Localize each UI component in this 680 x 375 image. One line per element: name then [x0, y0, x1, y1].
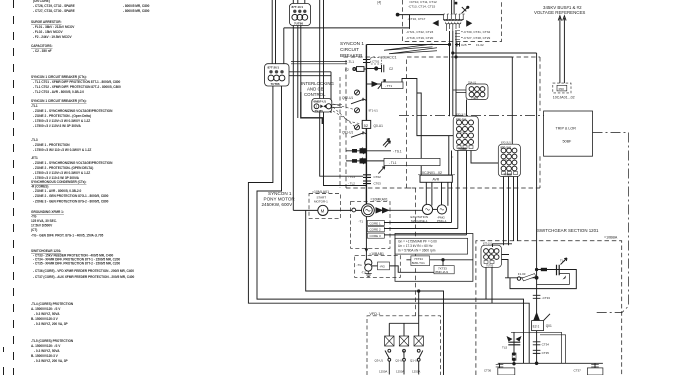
svg-text:[4]: [4]	[378, 1, 382, 5]
svg-text:CORE 1: CORE 1	[370, 221, 382, 225]
svg-text:- ZONE 2 - GEN PROTECTION 87G-: - ZONE 2 - GEN PROTECTION 87G-1 - 8000/5…	[33, 194, 109, 198]
svg-text:87T-1U1: 87T-1U1	[292, 5, 304, 9]
TL4 voltage transformer branch	[510, 270, 576, 289]
svg-text:(CT): (CT)	[31, 228, 37, 232]
svg-text:- ZONE 1 - PROTECTION: - ZONE 1 - PROTECTION	[33, 143, 70, 147]
svg-text:87G-1U1: 87G-1U1	[456, 117, 467, 121]
capacitor C2	[366, 65, 383, 72]
svg-text:CORE 3: CORE 3	[370, 234, 382, 238]
start motor M circle	[318, 205, 328, 215]
svg-text:- TL2: - TL2	[348, 181, 355, 185]
CT34	[533, 342, 541, 345]
surge arrester -TS.1	[346, 150, 391, 152]
svg-text:-TL5 (CORES) PROTECTION: -TL5 (CORES) PROTECTION	[31, 339, 74, 343]
transformer HV leads up	[452, 0, 455, 15]
svg-text:-T11: -T11	[361, 271, 367, 275]
circuit breaker Q0-U1 (52)	[362, 120, 371, 128]
wire: horizontal links transformer to bus and switchgear	[366, 44, 449, 46]
svg-text:- TS.1: - TS.1	[393, 149, 402, 153]
svg-text:SURGE ARRESTOR:: SURGE ARRESTOR:	[31, 20, 62, 24]
svg-text:SYNCHRONOUS CONDENSER (CTs):: SYNCHRONOUS CONDENSER (CTs):	[31, 180, 86, 184]
surge arrester -TL1 lower	[346, 160, 384, 162]
svg-text:87G-1U1: 87G-1U1	[456, 114, 466, 117]
svg-text:- ZONE 2 - PROTECTION- (OPEN: - ZONE 2 - PROTECTION- (OPEN DELTA)	[33, 166, 93, 170]
svg-text:=10MKA01: =10MKA01	[370, 197, 387, 201]
wire W1: cluster B to switchgear lower run	[248, 86, 529, 363]
svg-text:- 0.3 WXYZ, 200 VA, 3P: - 0.3 WXYZ, 200 VA, 3P	[34, 359, 69, 363]
junction dot	[455, 2, 458, 5]
svg-text:- 0.3 WXYZ, 200 VA, 3P: - 0.3 WXYZ, 200 VA, 3P	[34, 322, 69, 326]
svg-text:- 17500:√3 // 110V:√3 W/ 0.3WX: - 17500:√3 // 110V:√3 W/ 0.3WXY & 1.2Z	[33, 171, 90, 175]
svg-text:- TL2 CT03 - AVR - 8000/5, 0.3: - TL2 CT03 - AVR - 8000/5, 0.3B-2.0	[33, 90, 84, 94]
wire: bus duct run to breaker (flexible link curves)	[384, 44, 433, 50]
PMG circle	[437, 205, 446, 214]
svg-text:- 17500:√3 // 110V:3 W/ 3P 300: - 17500:√3 // 110V:3 W/ 3P 300VA	[33, 124, 82, 128]
svg-text:8MD-TU1: 8MD-TU1	[412, 261, 425, 265]
breaker E2-1 Q01	[532, 321, 544, 331]
svg-text:A- 15000V/120: √3 V: A- 15000V/120: √3 V	[31, 307, 61, 311]
label: INTERLOCKING AND CB CONTROL	[301, 81, 335, 97]
wires: cluster E bottom down toward switchgear	[504, 177, 518, 246]
svg-text:SYNCON 1: SYNCON 1	[268, 191, 292, 196]
dashed links interlock to switches	[333, 104, 355, 127]
svg-text:CIRCUIT: CIRCUIT	[340, 47, 359, 52]
svg-text:Q01: Q01	[546, 324, 552, 328]
svg-text:- TT1: - TT1	[385, 84, 392, 88]
interlock contact circle	[355, 108, 360, 113]
label: SYNCON 1 PONY MOTOR	[262, 191, 296, 207]
svg-text:- F2 - 24kV : 19.5kV MCOV: - F2 - 24kV : 19.5kV MCOV	[33, 35, 72, 39]
svg-text:=10BACC1: =10BACC1	[378, 55, 397, 59]
svg-text:F1.02: F1.02	[476, 43, 484, 47]
dashed box: main transformer enclosure	[403, 0, 502, 42]
svg-text:7SJ85: 7SJ85	[315, 109, 324, 113]
svg-text:7UT86: 7UT86	[271, 82, 280, 86]
svg-text:-CT13, CT14, CT15: -CT13, CT14, CT15	[408, 4, 435, 8]
disconnect Q92-U1	[355, 90, 360, 95]
label: SYNCON 1 CIRCUIT BREAKER	[340, 41, 364, 58]
wire: start motor feed	[293, 209, 318, 211]
CT35	[533, 350, 541, 353]
wire: feeders into relay cluster 87T-2 from top	[272, 0, 275, 64]
svg-text:CT35: CT35	[542, 351, 550, 355]
svg-text:CT02: CT02	[374, 175, 382, 179]
svg-text:-TG: -TG	[357, 263, 363, 267]
svg-text:F50: F50	[559, 87, 565, 91]
svg-text:CT36: CT36	[484, 368, 492, 372]
svg-text:B- 15000V/120:3 V: B- 15000V/120:3 V	[31, 317, 59, 321]
CT27..CT32 symbols on LV lead	[455, 31, 460, 40]
wire: aux feeder bypass	[419, 291, 444, 375]
svg-text:Q3-U1: Q3-U1	[375, 359, 384, 363]
svg-text:CT03: CT03	[374, 181, 382, 185]
earthing switch (scissor)	[462, 6, 469, 13]
wire: interlocking control loop (heavy)	[301, 92, 323, 124]
svg-text:MOTOR-1: MOTOR-1	[314, 199, 328, 203]
GSU transformer winding symbol	[443, 14, 465, 31]
excitation machine circle	[422, 204, 432, 214]
internal distribution	[389, 323, 418, 336]
svg-text:-CT21, CT22, CT23: -CT21, CT22, CT23	[406, 30, 433, 34]
CT01 on bus with TL1 label	[363, 60, 370, 63]
wire motor to machine with coupling	[328, 209, 362, 211]
main syncon bus	[365, 45, 367, 205]
fuse-contactor Q1-U1	[410, 336, 423, 375]
svg-text:C2: C2	[389, 67, 393, 71]
svg-text:AND CB: AND CB	[307, 87, 324, 92]
fuse-contactor Q2-U1	[395, 336, 408, 375]
svg-text:-R (CORES): -R (CORES)	[31, 185, 48, 189]
svg-text:-TG: -TG	[31, 215, 37, 219]
svg-text:M: M	[321, 208, 325, 213]
neutral grounding resistor RG	[378, 262, 390, 270]
svg-text:Un = 17.3 kV fN = 60: Un = 17.3 kV fN = 60 Hz	[398, 244, 433, 248]
svg-text:PONY MOTOR: PONY MOTOR	[264, 197, 296, 202]
svg-text:17.5kV D/500V: 17.5kV D/500V	[31, 224, 53, 228]
TL5 voltage transformer branch	[513, 332, 515, 363]
machine neutral bus down	[365, 217, 367, 262]
svg-text:125 KVA, 30 SEC.: 125 KVA, 30 SEC.	[31, 219, 57, 223]
wire: transformer CT lead	[284, 27, 410, 29]
svg-text:- TL1 CT01 - XFMR DIFF PROTECT: - TL1 CT01 - XFMR DIFF PROTECTION 87T-1 …	[33, 80, 121, 84]
relay box 6MBF-U1 (interlocking relay)	[312, 99, 342, 113]
svg-text:GROUNDING XFMR 1:: GROUNDING XFMR 1:	[31, 210, 64, 214]
dashed box: switchgear section	[476, 241, 622, 375]
svg-text:- ZONE 1 - SYNCHRONIZING VOLTA: - ZONE 1 - SYNCHRONIZING VOLTAGE/PROTECT…	[33, 161, 113, 165]
wires cluster C down	[486, 267, 492, 303]
svg-text:CT34: CT34	[542, 343, 550, 347]
wire: feeders through relay cluster 87T-1 from top	[293, 0, 305, 210]
svg-text:C25: C25	[461, 43, 467, 47]
svg-text:- 17500:√3 W// 110:√3 W/ 0.3WX: - 17500:√3 W// 110:√3 W/ 0.3WXY & 1.2Z	[33, 148, 91, 152]
svg-text:AVR: AVR	[433, 178, 440, 182]
svg-text:- CT37 (CORE) - AUX XFMR FEEDE: - CT37 (CORE) - AUX XFMR FEEDER PROTECTI…	[33, 275, 134, 279]
fuse box F50	[553, 83, 571, 93]
wires: cluster D bottom to core CT lines	[452, 151, 499, 235]
svg-text:- 17500:√3 // 110V:√3 W/ 0.3WX: - 17500:√3 // 110V:√3 W/ 0.3WXY & 1.2Z	[33, 119, 90, 123]
svg-text:SWITCHGEAR SECTION 1201: SWITCHGEAR SECTION 1201	[537, 228, 599, 233]
svg-text:-TL1: -TL1	[31, 104, 38, 108]
wires into AVR from top	[448, 136, 450, 176]
svg-text:- 0.3 WXYZ, 50VA: - 0.3 WXYZ, 50VA	[34, 349, 60, 353]
svg-text:7VE85: 7VE85	[471, 97, 479, 100]
CT33	[533, 295, 541, 298]
dashed box: =10BACC1	[344, 57, 541, 316]
svg-text:-T1: -T1	[359, 220, 364, 224]
svg-text:1250A: 1250A	[396, 369, 404, 373]
fuse F2	[353, 68, 366, 70]
svg-text:-CT33: -CT33	[542, 296, 551, 300]
svg-text:- TL1: - TL1	[389, 161, 397, 165]
wires AVR down to excitation machines	[426, 182, 448, 205]
svg-text:- ZONE 1 - AVR - 8000/5, 0.3B-: - ZONE 1 - AVR - 8000/5, 0.3B-2.0	[33, 189, 82, 193]
svg-text:SWITCHGEAR 1201:: SWITCHGEAR 1201:	[31, 249, 61, 253]
relay cluster 87G-1 (D)	[453, 114, 478, 151]
svg-text:- ZONE 1 - SYNCHRONIZING VOLTA: - ZONE 1 - SYNCHRONIZING VOLTAGE/PROTECT…	[33, 109, 113, 113]
svg-text:VFD-1: VFD-1	[369, 312, 380, 316]
svg-text:52: 52	[364, 123, 369, 128]
svg-text:87T-1U1: 87T-1U1	[483, 243, 493, 246]
svg-text:CONTROL: CONTROL	[304, 92, 326, 97]
svg-text:VOLTAGE REFERENCES: VOLTAGE REFERENCES	[534, 10, 585, 15]
feeder bus into switchgear	[536, 53, 538, 313]
relay box 7XT34	[411, 256, 430, 266]
svg-text:21 59 81: 21 59 81	[457, 132, 466, 134]
svg-text:50BF: 50BF	[563, 140, 573, 144]
svg-text:=10BBA: =10BBA	[604, 235, 618, 239]
delta winding marker right	[467, 21, 472, 26]
svg-text:-ET1: -ET1	[31, 156, 38, 160]
svg-text:7UM85: 7UM85	[458, 147, 467, 151]
label: 345KV BUS#1 & #2 VOLTAGE REFERENCES	[534, 5, 585, 15]
svg-text:-CT27, CT28, CT29: -CT27, CT28, CT29	[463, 36, 490, 40]
wire: VFD feeder	[306, 210, 419, 323]
surge arrester -TT1 on bus	[366, 83, 381, 85]
svg-text:87T-2U1: 87T-2U1	[268, 65, 280, 69]
svg-text:-TL1: -TL1	[348, 60, 355, 64]
svg-text:7UM85: 7UM85	[504, 173, 513, 177]
wire machine to excitation machine	[388, 209, 422, 211]
svg-text:-TL4 (CORES) PROTECTION: -TL4 (CORES) PROTECTION	[31, 302, 74, 306]
svg-text:- CT35 - XFMR DIFF. PROTECTION: - CT35 - XFMR DIFF. PROTECTION 87T-2 - 1…	[33, 262, 120, 266]
CT02 / CT03 on bus	[363, 175, 371, 184]
border match line left	[13, 0, 15, 375]
wire W2: cluster B to switchgear lower run 2	[257, 86, 524, 363]
section boundary vertical dash-dot right	[594, 133, 629, 313]
svg-text:- ZONE 2 - PROTECTION - (Open: - ZONE 2 - PROTECTION - (Open Delta)	[33, 114, 91, 118]
svg-text:CORE 2: CORE 2	[370, 228, 382, 232]
svg-text:25A-U1: 25A-U1	[468, 82, 477, 85]
svg-text:9T1-U1: 9T1-U1	[369, 109, 379, 113]
svg-text:SYNCON 1 CIRCUIT BREAKER (VTs): SYNCON 1 CIRCUIT BREAKER (VTs):	[31, 99, 87, 103]
svg-text:- TL1: - TL1	[348, 175, 355, 179]
CT labels top	[406, 0, 490, 40]
svg-text:B- 15000V/120:3 V: B- 15000V/120:3 V	[31, 354, 59, 358]
svg-text:- ZONE 3 - GEN PROTECTION 87G-: - ZONE 3 - GEN PROTECTION 87G-2 - 8000/5…	[33, 200, 109, 204]
CT25 / fuse F1.02 row	[455, 43, 460, 47]
wire: syncon breaker bus risers from top	[320, 0, 367, 186]
svg-text:2450KW, 600V: 2450KW, 600V	[262, 202, 294, 207]
svg-text:10CJN01...02: 10CJN01...02	[420, 171, 442, 175]
dashed box: VFD-1	[367, 316, 441, 375]
relay cluster 87T-1 U1 (A)	[290, 4, 311, 26]
wire: feeder into cluster E	[511, 57, 513, 144]
voltage reference risers with arrows	[560, 18, 565, 83]
machine data text box	[395, 238, 468, 254]
svg-text:Q0-U1: Q0-U1	[374, 124, 384, 128]
svg-text:F2: F2	[345, 68, 349, 72]
svg-text:=10MLA01: =10MLA01	[312, 190, 329, 194]
svg-text:TL5: TL5	[502, 346, 508, 350]
svg-text:- FL01 - 36kV : 212kV MCOV: - FL01 - 36kV : 212kV MCOV	[33, 25, 75, 29]
ground symbol	[365, 271, 371, 276]
svg-text:-CT30, CT31, CT32: -CT30, CT31, CT32	[463, 30, 490, 34]
section boundary horizontal dash-dot	[399, 116, 629, 133]
feeder distribution bus	[498, 362, 603, 364]
core secondary wires to right	[384, 223, 466, 235]
svg-text:7UT85: 7UT85	[486, 264, 494, 267]
svg-text:- 8000/5 MR, C800: - 8000/5 MR, C800	[123, 4, 150, 8]
svg-text:8MD-2U1: 8MD-2U1	[435, 270, 448, 274]
left notes text column	[31, 0, 150, 363]
dashed box: interlocking area	[339, 77, 341, 188]
svg-text:-TL3: -TL3	[31, 138, 38, 142]
relay cluster 87T-2 U1 (B)	[265, 64, 289, 86]
aux feeder box 1 with CT36	[499, 363, 501, 368]
wire: step lead into transformer box left	[398, 15, 444, 29]
svg-text:Q92-U1: Q92-U1	[342, 96, 353, 100]
svg-text:- 8000/5 MR, C800: - 8000/5 MR, C800	[123, 9, 150, 13]
LV leads down from transformer	[450, 31, 457, 116]
svg-text:-TG - GEN DIFF. PROT. 87G-1 -: -TG - GEN DIFF. PROT. 87G-1 - 400/5, 15V…	[31, 234, 104, 238]
svg-text:SYNCON 1: SYNCON 1	[340, 41, 364, 46]
svg-text:- CT27, CT28, CT30 - SPARE: - CT27, CT28, CT30 - SPARE	[33, 9, 75, 13]
svg-text:6MBF-U1: 6MBF-U1	[314, 100, 327, 104]
wire: cluster F to cluster D	[466, 100, 468, 117]
svg-text:CT01: CT01	[372, 60, 380, 64]
svg-text:A- 15000V/120: √3 V: A- 15000V/120: √3 V	[31, 344, 61, 348]
svg-text:- CT36 (CORE) - VFD XFMR FEEDE: - CT36 (CORE) - VFD XFMR FEEDER PROTECTI…	[33, 269, 134, 273]
svg-text:- FL02 - 15kV MCOV: - FL02 - 15kV MCOV	[33, 30, 63, 34]
wire RG to 7XT33	[390, 266, 435, 272]
relay box 7XT33	[434, 266, 454, 274]
svg-text:CAPACITORS:: CAPACITORS:	[31, 44, 53, 48]
svg-text:E2-1: E2-1	[533, 325, 540, 329]
box around 7XT units	[395, 234, 473, 282]
delta winding marker left	[434, 21, 439, 26]
svg-text:87G-2U1: 87G-2U1	[501, 142, 511, 145]
svg-text:1250A: 1250A	[379, 369, 387, 373]
svg-text:(ON CORE): (ON CORE)	[33, 0, 50, 3]
synchronous condenser machine circle	[362, 204, 375, 217]
svg-text:Q1-U1: Q1-U1	[410, 359, 419, 363]
svg-text:CT37: CT37	[574, 368, 582, 372]
svg-text:F1.03: F1.03	[518, 272, 526, 276]
svg-text:INTERLOCKING: INTERLOCKING	[301, 81, 335, 86]
svg-text:=CT10, CT11, CT12: =CT10, CT11, CT12	[409, 0, 437, 4]
svg-text:87G-2U1: 87G-2U1	[501, 146, 512, 150]
svg-text:- TL1 CT02 - XFMR DIFF. PROTEC: - TL1 CT02 - XFMR DIFF. PROTECTION 87T-2…	[33, 85, 121, 89]
svg-text:-RG: -RG	[380, 265, 386, 269]
svg-text:- 0.3 WXYZ, 50VA: - 0.3 WXYZ, 50VA	[34, 312, 60, 316]
aux feeder box 2 with CT37	[594, 363, 596, 368]
breaker side taps	[511, 332, 566, 363]
relay cluster 87G-2 (E)	[498, 142, 520, 177]
svg-text:SYNCON 1 CIRCUIT BREAKER (CTs): SYNCON 1 CIRCUIT BREAKER (CTs):	[31, 75, 87, 79]
wires from 7XT units	[406, 259, 473, 261]
svg-text:Q91-U1: Q91-U1	[342, 130, 353, 134]
svg-text:TL4: TL4	[560, 259, 566, 263]
border tick bottom-left	[3, 347, 5, 375]
svg-text:10CJA01...02: 10CJA01...02	[553, 95, 575, 99]
excitation arrows into machine	[376, 208, 382, 213]
fuse-contactor Q3-U1	[375, 336, 395, 375]
relay cluster switchgear (C)	[481, 243, 502, 268]
disconnect Q91-U1	[355, 125, 360, 130]
relay cluster 25A-U1 (F)	[466, 82, 488, 101]
CT cores CORE1-3	[367, 220, 384, 238]
svg-text:-CT16, CT17: -CT16, CT17	[408, 17, 426, 21]
small arrow near bus	[383, 139, 390, 146]
wires to cluster F	[453, 90, 470, 93]
svg-text:In = 5780A nN = 36: In = 5780A nN = 3600 rpm	[398, 248, 436, 252]
TRIP & LOR box	[544, 111, 593, 156]
svg-text:- C2 - 350 nF: - C2 - 350 nF	[33, 49, 52, 53]
breaker arrow	[534, 313, 539, 320]
svg-text:Gn = +175MVAR PF = 0.00: Gn = +175MVAR PF = 0.00	[398, 240, 437, 244]
wires cluster C right side	[493, 244, 513, 278]
svg-text:- CT26, CT29, CT32 - SPARE: - CT26, CT29, CT32 - SPARE	[33, 4, 75, 8]
svg-text:1250A: 1250A	[412, 369, 420, 373]
svg-text:TRIP & LOR: TRIP & LOR	[556, 126, 577, 130]
main schematic	[248, 0, 529, 363]
svg-text:7UT86: 7UT86	[294, 22, 303, 26]
svg-text:Q2-U1: Q2-U1	[395, 359, 404, 363]
svg-text:-CT18, CT19, CT20: -CT18, CT19, CT20	[406, 36, 433, 40]
svg-text:24 51 64: 24 51 64	[502, 160, 511, 162]
